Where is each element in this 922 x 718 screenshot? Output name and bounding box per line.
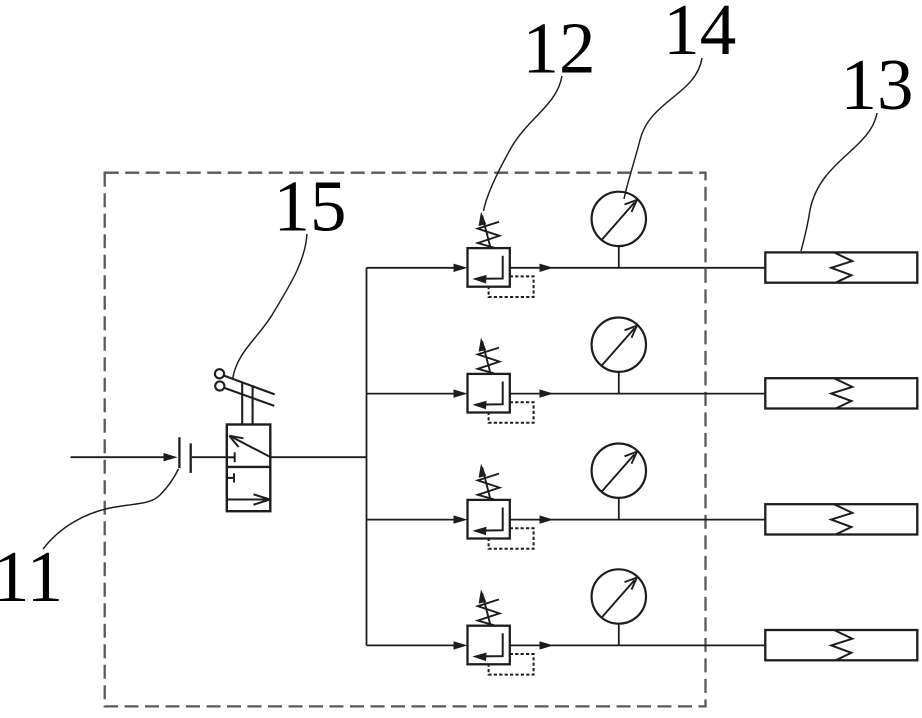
- output wire row 3: [510, 515, 766, 523]
- wire coupling to valve: [192, 456, 227, 458]
- pressure regulator 12 row 1: [468, 212, 510, 287]
- pressure gauge 14 row 2: [592, 318, 646, 394]
- svg-text:13: 13: [841, 44, 914, 125]
- output wire row 2: [510, 389, 766, 397]
- branch wire row 2: [367, 389, 468, 397]
- wire valve to manifold: [270, 456, 366, 458]
- manifold bus wire: [366, 268, 368, 646]
- svg-text:15: 15: [274, 166, 347, 247]
- leader line 13: [801, 113, 877, 251]
- pressure regulator 12 row 3: [468, 464, 510, 539]
- branch wire row 1: [367, 264, 468, 272]
- pressure gauge 14 row 1: [592, 192, 646, 268]
- regulator feedback pilot line row 1: [489, 276, 534, 297]
- valve 15 lever actuator: [215, 369, 275, 424]
- pressure regulator 12 row 2: [468, 338, 510, 413]
- regulator feedback pilot line row 2: [489, 402, 534, 423]
- cylinder 13 row 4: [765, 630, 917, 660]
- cylinder 13 row 2: [765, 378, 917, 408]
- cylinder 13 row 1: [765, 252, 917, 282]
- leader line 14: [624, 58, 702, 199]
- branch wire row 3: [367, 515, 468, 523]
- svg-text:11: 11: [0, 536, 63, 617]
- pressure gauge 14 row 4: [592, 569, 646, 645]
- directional valve 15 body: [227, 425, 270, 512]
- svg-text:12: 12: [523, 8, 596, 89]
- supply wire: [71, 453, 178, 461]
- branch wire row 4: [367, 641, 468, 649]
- quick coupling 11: [179, 437, 190, 473]
- pressure regulator 12 row 4: [468, 589, 510, 664]
- output wire row 1: [510, 264, 766, 272]
- leader line 11: [43, 469, 179, 549]
- svg-text:14: 14: [663, 0, 736, 70]
- cylinder 13 row 3: [765, 504, 917, 534]
- pressure gauge 14 row 3: [592, 444, 646, 520]
- enclosure dashed boundary: [105, 173, 706, 707]
- output wire row 4: [510, 641, 766, 649]
- leader line 15: [233, 234, 307, 379]
- leader line 12: [484, 76, 563, 211]
- regulator feedback pilot line row 4: [489, 654, 534, 675]
- regulator feedback pilot line row 3: [489, 528, 534, 549]
